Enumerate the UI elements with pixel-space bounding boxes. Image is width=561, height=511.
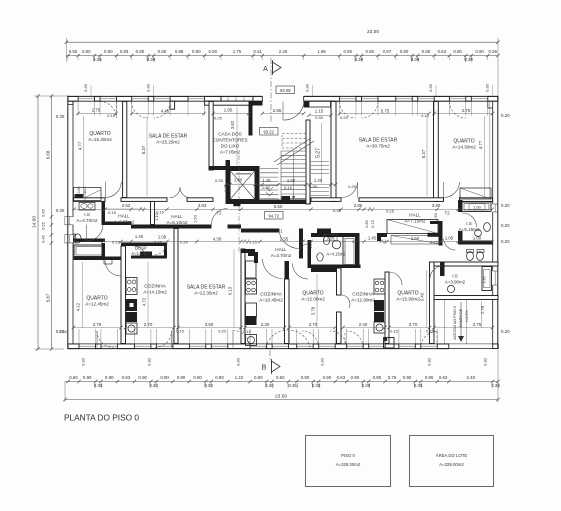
wall hall-is left apartment vertical [102, 202, 106, 226]
svg-text:0.30: 0.30 [312, 383, 321, 388]
door arc sala bottom-left [233, 331, 250, 348]
svg-text:0.30: 0.30 [236, 357, 241, 366]
wall lobby right apartment horizontal [428, 233, 443, 237]
wall is390 top horizontal [434, 262, 498, 266]
bath middle label 2.05 box [324, 235, 337, 241]
corridor top wall segment right [359, 198, 444, 202]
svg-text:0.90: 0.90 [215, 375, 224, 380]
wall cozinha-quarto center vertical [285, 279, 290, 344]
right wall inner finish line [489, 102, 491, 198]
svg-text:0.15: 0.15 [107, 113, 116, 118]
stairwell right wall vertical [306, 120, 310, 204]
wall stub below elevator [233, 202, 240, 206]
left wall window sill marks lower [65, 234, 68, 236]
svg-text:A=7.15m2: A=7.15m2 [404, 218, 426, 223]
sink left apartment [79, 203, 95, 211]
corridor bottom wall segment a [131, 225, 212, 229]
dimension line overall 14.00 left [37, 96, 39, 349]
svg-text:A=3.90m2: A=3.90m2 [445, 279, 466, 284]
svg-text:1.05: 1.05 [445, 235, 454, 240]
svg-text:93.22: 93.22 [263, 130, 274, 135]
door arc sala right door from hall [342, 183, 358, 198]
corridor dimension line upper [74, 208, 492, 210]
svg-text:0.30: 0.30 [305, 83, 310, 92]
svg-text:1.15: 1.15 [315, 109, 324, 114]
extension lines from top wall window edges [77, 102, 79, 116]
svg-text:0.90: 0.90 [138, 375, 147, 380]
door arc quarto 12.00 from hall [293, 264, 309, 280]
left wall bathroom window lower [69, 235, 71, 243]
svg-text:0.20: 0.20 [501, 113, 510, 118]
svg-text:0.25: 0.25 [214, 116, 223, 121]
svg-text:5.40: 5.40 [420, 292, 425, 301]
duct black left of cozinha 14.15 [140, 252, 152, 259]
closet row hall 7.15 upper [387, 220, 438, 234]
wall quarto-sala top-left vertical [123, 102, 127, 198]
corridor break mark lower 1 [243, 240, 249, 244]
svg-text:0.35: 0.35 [309, 184, 318, 189]
svg-text:0.30: 0.30 [83, 83, 88, 92]
corridor break mark lower 2 [380, 240, 386, 244]
svg-text:0.90: 0.90 [209, 49, 218, 54]
svg-text:HALL: HALL [171, 214, 183, 219]
left wall bathroom window upper [69, 217, 71, 225]
svg-text:0.93: 0.93 [122, 375, 131, 380]
svg-text:23.50: 23.50 [367, 29, 379, 35]
svg-text:1.75: 1.75 [233, 49, 242, 54]
exterior top wall window mid lines [78, 98, 94, 100]
door arc cozinha bottom-left [155, 331, 172, 348]
svg-text:0.30: 0.30 [320, 357, 325, 366]
door arc quarto left door from hall [105, 182, 121, 198]
svg-text:0.30: 0.30 [315, 115, 324, 120]
wall is right apartment vertical upper [458, 200, 463, 212]
svg-text:0.90: 0.90 [351, 375, 360, 380]
door arc quarto top-left french window [100, 102, 117, 119]
svg-text:0.15: 0.15 [371, 220, 375, 227]
wall bath middle left lower vertical [308, 240, 312, 268]
wall bath bottom left [74, 257, 125, 261]
svg-text:2.70: 2.70 [309, 322, 318, 327]
svg-text:4.72: 4.72 [142, 297, 147, 306]
svg-text:1.60: 1.60 [473, 235, 482, 240]
svg-text:0.63: 0.63 [439, 375, 448, 380]
wall sala-quarto top-right vertical [434, 102, 439, 202]
svg-text:0.25: 0.25 [426, 329, 435, 334]
door arc sala left double doors [170, 187, 181, 198]
door arc bottom center double 1 [266, 330, 288, 348]
svg-text:0.20: 0.20 [218, 329, 227, 334]
top-left corner pier step [68, 101, 73, 104]
svg-text:2.26: 2.26 [279, 49, 288, 54]
svg-text:1.10: 1.10 [154, 212, 159, 221]
svg-text:T1: T1 [277, 229, 283, 234]
elevator shaft left wall [226, 160, 231, 204]
exterior bottom wall piers outlined [68, 344, 79, 349]
bathtub left apartment [74, 245, 105, 257]
svg-text:A=329.00m2: A=329.00m2 [439, 462, 464, 467]
svg-text:0.30: 0.30 [147, 57, 156, 62]
svg-text:0.30: 0.30 [146, 83, 151, 92]
corridor top wall segment far right [460, 198, 493, 202]
svg-text:A=3.70m2: A=3.70m2 [271, 253, 292, 258]
wall desp bottom [131, 256, 167, 259]
svg-text:0.60: 0.60 [365, 220, 369, 227]
wall is right apartment horizontal y240 [458, 241, 493, 245]
svg-text:2.78: 2.78 [480, 305, 485, 314]
section marker A flag [273, 62, 282, 73]
wall sala right apartment left vertical [331, 102, 336, 202]
svg-text:0.30: 0.30 [81, 357, 86, 366]
section line A vertical dash-dot [270, 58, 272, 122]
entrance steps right of stairwell lower [311, 187, 329, 189]
svg-text:1.50: 1.50 [433, 212, 438, 221]
closet quarto top-left corner [74, 188, 102, 201]
svg-text:3.83: 3.83 [198, 203, 207, 208]
svg-text:6.68: 6.68 [45, 150, 50, 159]
svg-text:93.09: 93.09 [280, 88, 291, 93]
svg-text:3.50: 3.50 [205, 322, 214, 327]
wall hall 3.70 right vertical [299, 229, 303, 259]
svg-text:0.55: 0.55 [41, 221, 46, 230]
closet hatched quarto 14.50 [460, 188, 491, 199]
top wall 1.75 segment mullion ticks [227, 96, 229, 101]
svg-text:0.25: 0.25 [262, 185, 271, 190]
svg-text:T2: T2 [216, 211, 222, 216]
svg-text:0.97: 0.97 [383, 49, 392, 54]
stair main flight steps [281, 150, 306, 152]
wall cozinha-quarto center vertical black top [285, 261, 290, 279]
svg-text:1.40: 1.40 [234, 178, 243, 183]
svg-text:0.30: 0.30 [485, 83, 490, 92]
svg-text:A=14.15m2: A=14.15m2 [143, 289, 167, 294]
section line B vertical dash-dot [269, 350, 271, 362]
svg-text:0.98: 0.98 [175, 49, 184, 54]
bathtub right label 1.60 box [469, 204, 485, 210]
sink right apartment is515 [475, 230, 482, 237]
svg-text:0.15: 0.15 [154, 240, 163, 245]
svg-text:0.45: 0.45 [288, 383, 297, 388]
dim line through elevator and stair [226, 184, 336, 186]
exterior top wall piers outlined [68, 96, 78, 101]
svg-text:2.40: 2.40 [467, 375, 476, 380]
closet row hall 7.15 lower [391, 236, 441, 245]
svg-text:A=22.35m2: A=22.35m2 [194, 290, 218, 295]
door arc sala right french window 1 [340, 102, 357, 119]
exterior bottom wall outer and inner lines [68, 348, 449, 350]
svg-text:0.45: 0.45 [41, 208, 46, 217]
svg-text:2.75: 2.75 [473, 322, 482, 327]
legend box area do lote [410, 436, 494, 487]
door arc desp interior [134, 246, 145, 256]
svg-text:1.20: 1.20 [287, 178, 296, 183]
svg-text:0.90: 0.90 [193, 375, 202, 380]
svg-text:0.90: 0.90 [366, 49, 375, 54]
svg-text:0.90: 0.90 [400, 49, 409, 54]
wall quarto-cozinha right vertical [385, 272, 389, 344]
duct black top of bath middle [317, 229, 331, 234]
svg-text:0.63: 0.63 [337, 375, 346, 380]
svg-text:ÁREA DO LOTE: ÁREA DO LOTE [436, 453, 468, 458]
svg-text:A=15.20m2: A=15.20m2 [88, 137, 112, 142]
svg-text:0.20: 0.20 [501, 239, 510, 244]
toilet right apartment is390 [467, 252, 474, 261]
svg-text:0.25: 0.25 [340, 115, 349, 120]
pier outlined at bottom wall center-right [384, 338, 395, 349]
kitchen column cozinha 10.45 stove [246, 279, 257, 294]
svg-text:0.90: 0.90 [373, 375, 382, 380]
svg-text:4.77: 4.77 [78, 141, 83, 150]
svg-text:0.20: 0.20 [501, 329, 510, 334]
svg-text:0.90: 0.90 [453, 49, 462, 54]
legend box piso 0 [306, 436, 391, 487]
svg-text:2.30: 2.30 [261, 322, 270, 327]
svg-text:PLANTA DO PISO 0: PLANTA DO PISO 0 [64, 412, 139, 422]
svg-text:0.90: 0.90 [301, 375, 310, 380]
svg-text:0.90: 0.90 [344, 49, 353, 54]
elevator shaft [230, 171, 255, 200]
svg-text:1.45: 1.45 [483, 277, 487, 284]
dimension line overall 23.50 bottom [65, 399, 498, 401]
wall cozinha 12.90 left vertical lower [337, 312, 342, 344]
kitchen column cozinha 14.15 sink square [126, 323, 137, 334]
svg-text:0.15: 0.15 [421, 113, 430, 118]
svg-text:2.85: 2.85 [354, 203, 363, 208]
wall casa do lixo top inner [205, 101, 253, 105]
svg-text:2.75: 2.75 [462, 108, 471, 113]
door arc quarto right french window [449, 102, 465, 119]
svg-text:0.15: 0.15 [386, 209, 395, 214]
svg-text:I.S: I.S [84, 212, 90, 217]
svg-text:0.25: 0.25 [348, 184, 357, 189]
svg-text:3.82: 3.82 [230, 120, 235, 129]
svg-text:0.75: 0.75 [388, 375, 397, 380]
svg-text:2.60: 2.60 [411, 236, 420, 241]
svg-text:A: A [263, 66, 268, 73]
door arc entrance [283, 101, 304, 120]
elevator center dash-dot line [238, 155, 240, 252]
stair left flight steps [260, 168, 279, 170]
corridor bottom wall segment b [228, 225, 242, 229]
corridor break mark upper 1 [139, 207, 145, 211]
bathtub right vertical label 1.45 box [484, 270, 491, 288]
exterior left wall double lines [67, 96, 69, 349]
svg-text:0.90: 0.90 [323, 375, 332, 380]
svg-text:1.96: 1.96 [317, 49, 326, 54]
toilet right apartment is515 [484, 223, 491, 232]
svg-text:I=6.2%: I=6.2% [465, 310, 469, 322]
exterior top wall outer and inner lines [68, 95, 263, 97]
wall lobby inner below top wall outline [309, 101, 331, 107]
svg-text:2.70: 2.70 [409, 322, 418, 327]
svg-text:0.15: 0.15 [284, 185, 293, 190]
wall quarto-ramp vertical [430, 262, 435, 344]
wall stub left of closet row [377, 233, 387, 237]
svg-text:6.13: 6.13 [228, 286, 233, 295]
door arc hall 3.70 to cozinha [263, 259, 283, 279]
door arc t2 right apartment [444, 239, 456, 251]
pier stub top wall 0.98 [170, 101, 175, 109]
wall lobby right apartment vertical [439, 221, 443, 246]
stair upper flight dashed [282, 134, 306, 149]
svg-text:1.45: 1.45 [135, 234, 144, 239]
door arc quarto 12.45 entry [105, 261, 121, 277]
door arc is 5.15 entry [463, 213, 477, 227]
bathtub right apartment vertical 1.45 [482, 267, 492, 291]
kitchen column cozinha 14.15 oven dark [126, 299, 137, 311]
svg-text:0.30: 0.30 [59, 329, 68, 334]
svg-text:0.55: 0.55 [69, 49, 78, 54]
svg-text:14.00: 14.00 [32, 216, 38, 228]
door arc is left apartment [87, 225, 104, 241]
svg-text:0.30: 0.30 [427, 357, 432, 366]
wall sala-cozinha center vertical [241, 249, 245, 344]
svg-text:1.22: 1.22 [235, 375, 244, 380]
wall is bottom left apartment [74, 239, 106, 243]
bidet right apartment is390 [477, 252, 484, 261]
svg-text:B: B [262, 365, 267, 372]
ramp area arrow [460, 302, 462, 340]
svg-text:T2: T2 [444, 211, 450, 216]
kitchen column cozinha 12.90 black appliance upper [374, 300, 384, 311]
door arc cozinha center bottom [302, 331, 319, 348]
svg-text:0.90: 0.90 [158, 49, 167, 54]
wall desp right vertical [164, 243, 167, 259]
door arc cozinha 12.90 left [341, 295, 350, 308]
wall cozinha center top jog [241, 249, 255, 253]
door arc t2 left apartment [212, 209, 228, 225]
dimension line overall 23.50 top [66, 41, 498, 43]
svg-text:A=14.50m2: A=14.50m2 [452, 144, 476, 149]
svg-text:CASA DOS: CASA DOS [218, 131, 242, 136]
door arc quarto right bottom [421, 332, 437, 348]
svg-text:A=6.10m2: A=6.10m2 [166, 220, 188, 225]
bath middle toilet [323, 236, 329, 244]
svg-text:5.37: 5.37 [141, 145, 146, 154]
svg-text:0.60: 0.60 [77, 187, 81, 194]
bathtub right apartment horizontal 1.60 [462, 202, 491, 212]
svg-text:4.12: 4.12 [76, 302, 81, 311]
elevator shaft right wall [255, 166, 260, 204]
toilet left apartment [74, 234, 81, 243]
svg-text:I.S: I.S [452, 273, 457, 278]
svg-text:0.30: 0.30 [147, 357, 152, 366]
svg-text:2.62: 2.62 [122, 203, 131, 208]
svg-text:A=7.05m2: A=7.05m2 [220, 149, 241, 154]
svg-text:0.90: 0.90 [136, 49, 145, 54]
right wall window at tub [494, 271, 496, 285]
wall cozinha 12.90 left vertical upper [337, 268, 342, 295]
svg-text:0.30: 0.30 [265, 383, 274, 388]
svg-text:A=329.00m2: A=329.00m2 [336, 462, 361, 467]
wall entrance lobby left stub [253, 102, 263, 106]
svg-text:A=12.90m2: A=12.90m2 [351, 297, 375, 302]
bath middle tub vertical [343, 237, 356, 267]
svg-text:A=30.75m2: A=30.75m2 [366, 143, 390, 148]
svg-text:0.15: 0.15 [430, 240, 439, 245]
svg-text:1.50: 1.50 [193, 214, 198, 223]
svg-text:2.75: 2.75 [93, 322, 102, 327]
wall hall bottom left apartment [102, 222, 132, 226]
wall quarto-cozinha bottom-left vertical [121, 246, 126, 344]
kitchen column cozinha 10.45 counter [246, 303, 257, 317]
wall stub lobby right [430, 221, 439, 224]
svg-text:1.45: 1.45 [262, 178, 271, 183]
svg-text:0.90: 0.90 [160, 375, 169, 380]
door arc quarto bottom-left [97, 331, 114, 348]
svg-text:A=5.15m2: A=5.15m2 [458, 227, 480, 232]
svg-text:0.30: 0.30 [94, 383, 103, 388]
level box 93.22 [260, 128, 279, 136]
svg-text:A=12.45m2: A=12.45m2 [85, 301, 109, 306]
svg-text:ACESSO AO PISO 0: ACESSO AO PISO 0 [453, 306, 457, 340]
svg-text:0.15: 0.15 [112, 240, 121, 245]
svg-text:5.87: 5.87 [45, 293, 50, 302]
extension lines from bottom wall window edges [78, 329, 80, 344]
svg-text:DESP: DESP [135, 245, 147, 250]
stair pier bottom black [282, 196, 291, 204]
kitchen column cozinha 10.45 black appliance [246, 316, 257, 325]
svg-text:HALL: HALL [118, 213, 130, 218]
door arc quarto 14.50 [444, 182, 460, 198]
wall between hall 5.95 and hall 6.10 [151, 202, 155, 225]
svg-text:0.90: 0.90 [82, 49, 91, 54]
kitchen column cozinha 14.15 black appliance [126, 312, 137, 322]
corridor top wall segment 4 [311, 198, 341, 202]
wall cozinha-sala bottom-left vertical [174, 229, 178, 344]
stair rail center [293, 151, 295, 199]
corridor top wall under elevator-stair [226, 200, 312, 205]
left wall window sill marks upper [65, 216, 68, 218]
stair break diagonal [274, 138, 311, 162]
kitchen column cozinha 14.15 stove [126, 278, 137, 295]
wall cozinha 10.45 top step [248, 252, 258, 256]
svg-text:RAMPA DE: RAMPA DE [459, 308, 463, 327]
svg-text:CONTENTORES: CONTENTORES [212, 137, 247, 142]
svg-text:0.90: 0.90 [422, 49, 431, 54]
svg-text:0.15: 0.15 [243, 329, 252, 334]
svg-text:0.15: 0.15 [390, 329, 399, 334]
svg-text:0.20: 0.20 [501, 203, 510, 208]
svg-text:0.35: 0.35 [333, 208, 342, 213]
svg-text:A=4.15m2: A=4.15m2 [326, 251, 346, 256]
elevator door strip [236, 173, 252, 175]
door arc sala top-left french window 2 [154, 102, 170, 119]
wall is390 left region vertical [440, 262, 445, 276]
level box 93.09 [276, 86, 295, 94]
svg-text:2.55: 2.55 [280, 237, 289, 242]
svg-text:0.55: 0.55 [489, 49, 498, 54]
door arc bottom center double 2 [288, 330, 310, 348]
svg-text:HALL: HALL [275, 247, 287, 252]
elevator shaft top wall [226, 166, 260, 171]
svg-text:5.50: 5.50 [274, 204, 283, 209]
svg-text:1.95: 1.95 [224, 108, 233, 113]
svg-text:2.05: 2.05 [327, 235, 335, 240]
svg-text:4.30: 4.30 [213, 237, 222, 242]
svg-text:A=15.90m2: A=15.90m2 [396, 296, 420, 301]
svg-text:0.30: 0.30 [56, 114, 65, 119]
corridor top wall segment 2 [121, 198, 167, 202]
corridor dimension line lower [74, 241, 492, 243]
wall entrance pier right of door [304, 102, 309, 108]
door arc bath middle [299, 244, 308, 253]
svg-text:0.90: 0.90 [105, 375, 114, 380]
entrance steps right of stairwell upper [311, 161, 329, 163]
svg-text:3.78: 3.78 [311, 306, 316, 315]
svg-text:PISO 0: PISO 0 [341, 453, 355, 458]
svg-text:5.75: 5.75 [381, 109, 390, 114]
